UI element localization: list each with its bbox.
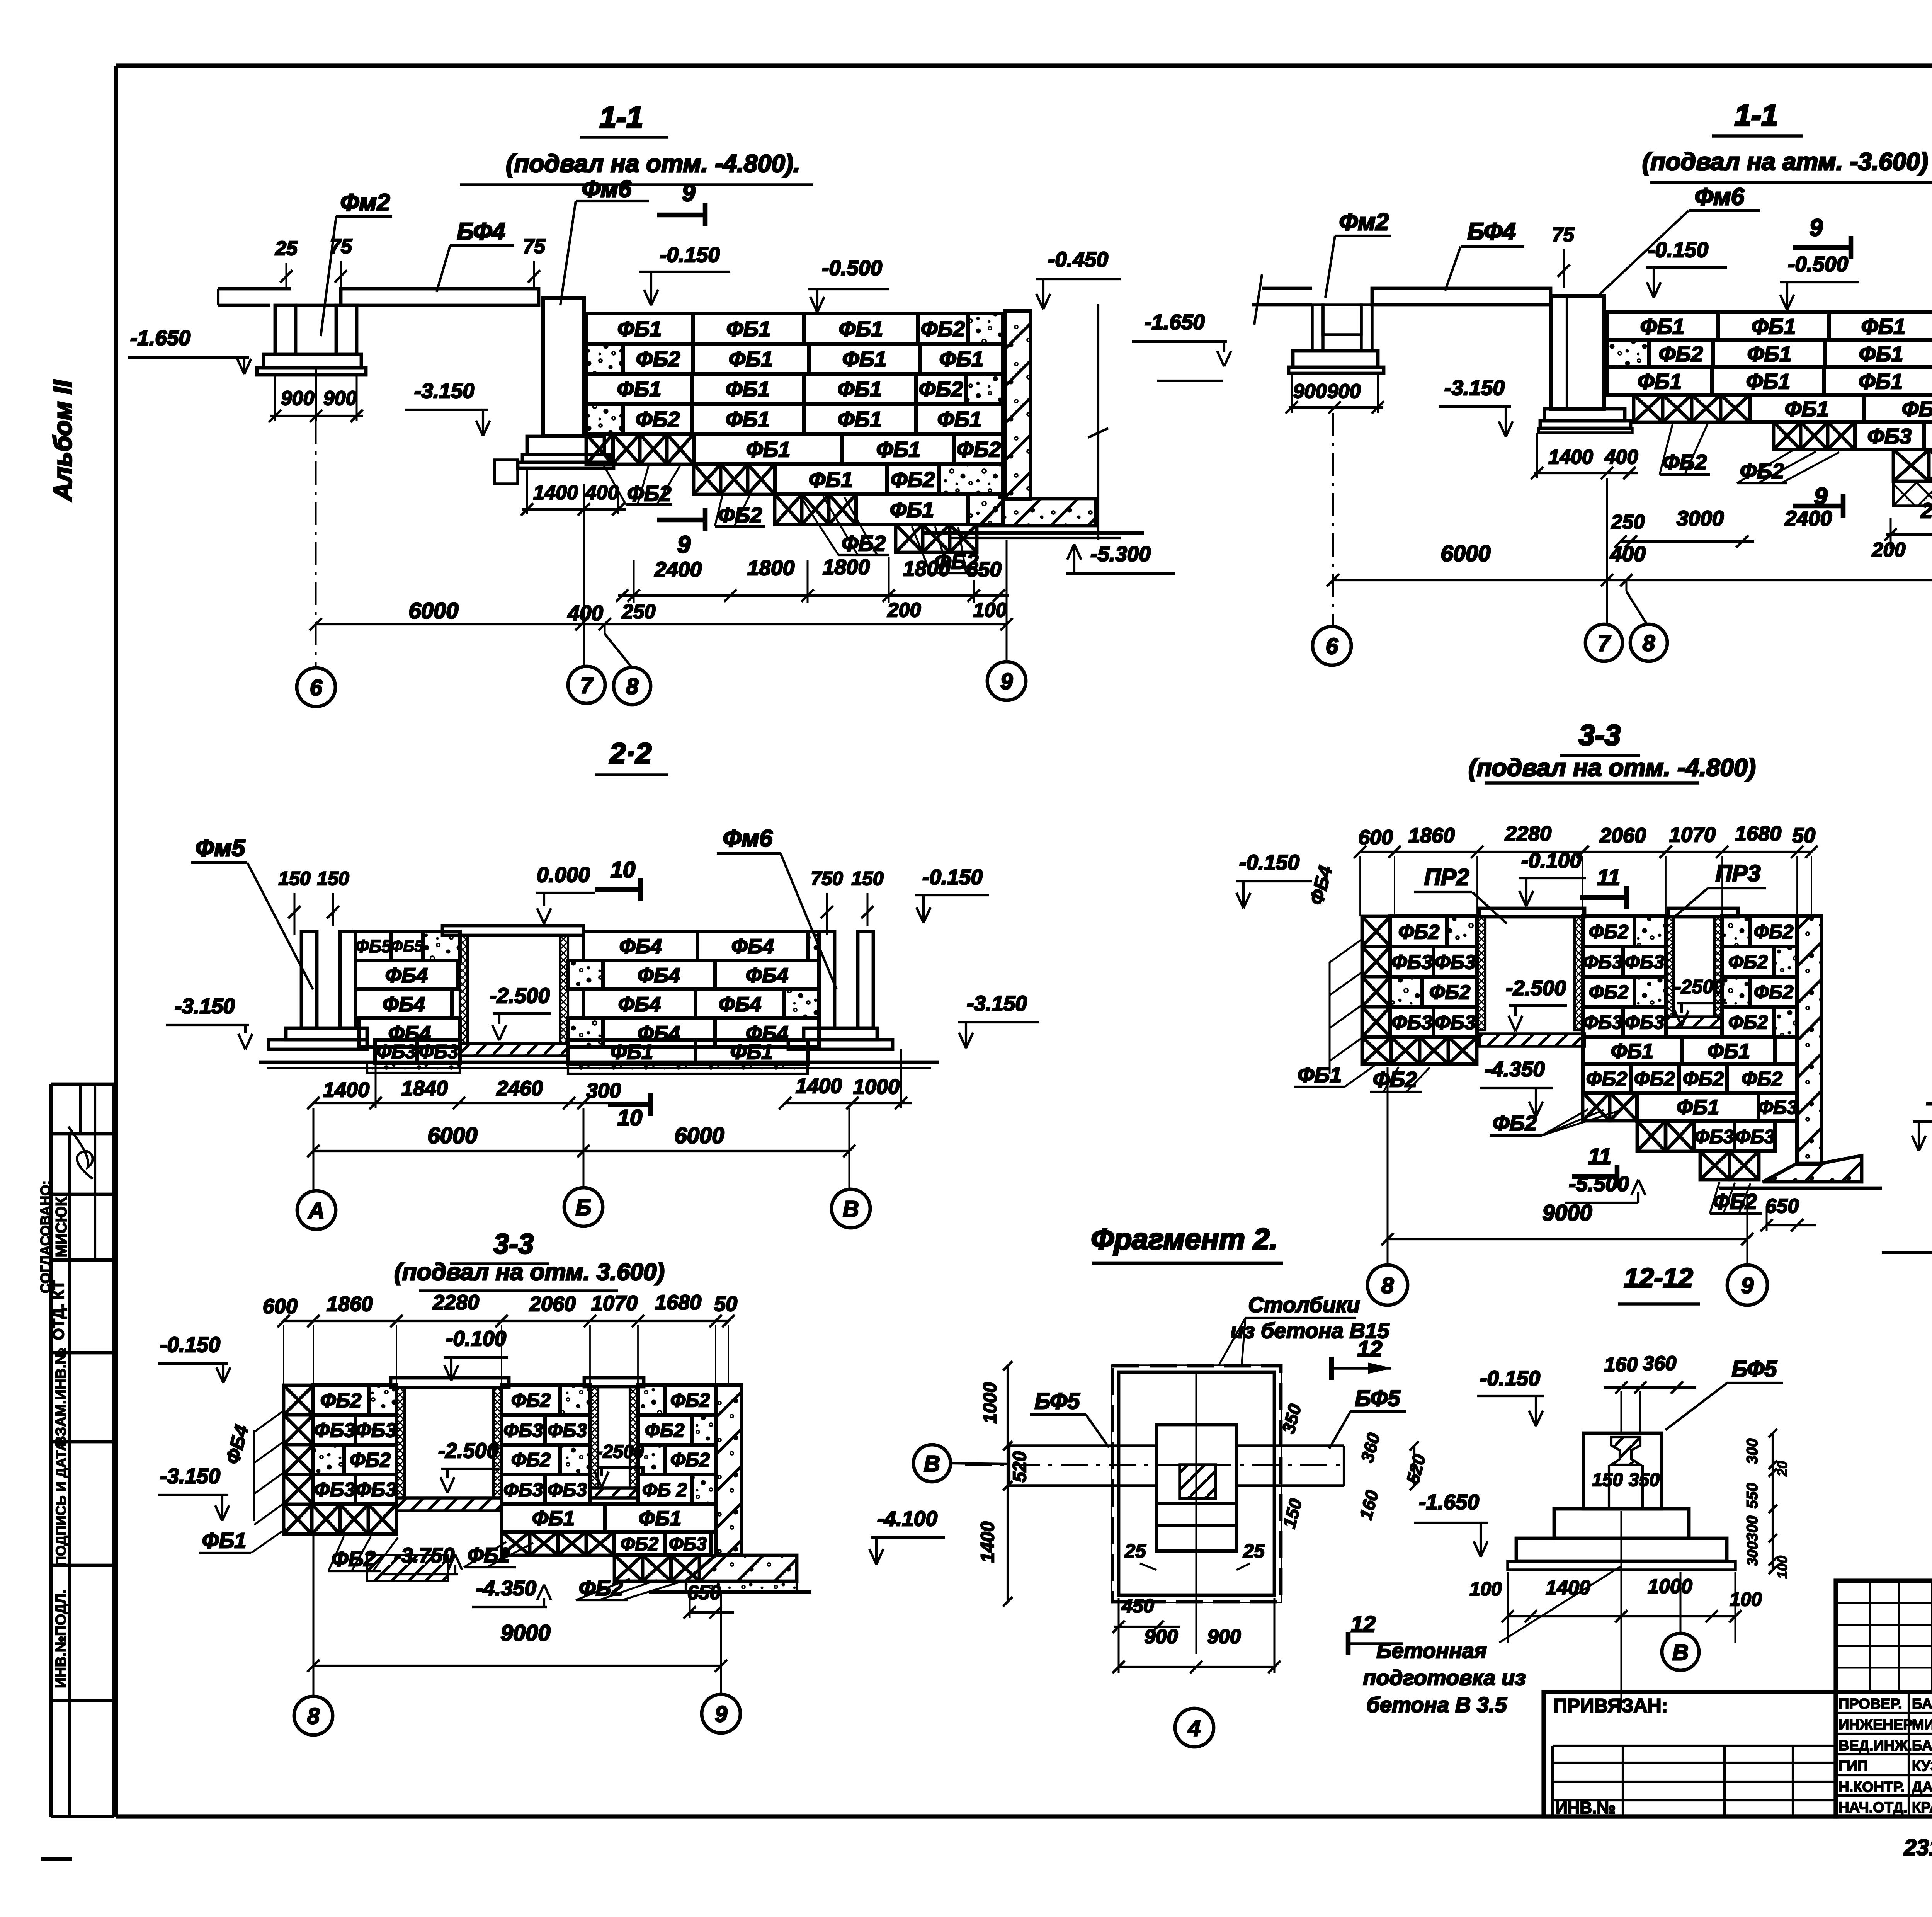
svg-text:ФБ1: ФБ1 [202, 1528, 247, 1553]
svg-text:250: 250 [1611, 511, 1645, 533]
svg-text:12: 12 [1351, 1612, 1376, 1637]
svg-text:9000: 9000 [1542, 1200, 1592, 1226]
svg-text:ФБ2: ФБ2 [1634, 1068, 1675, 1090]
svg-text:ФБ1: ФБ1 [838, 407, 882, 431]
svg-text:ФБ1: ФБ1 [746, 437, 791, 461]
svg-text:ФБ3: ФБ3 [548, 1479, 587, 1501]
svg-text:-0.500: -0.500 [1788, 252, 1848, 276]
svg-text:1860: 1860 [1408, 824, 1455, 847]
svg-text:7: 7 [580, 673, 594, 698]
svg-text:10: 10 [617, 1105, 643, 1130]
svg-text:ФБ1: ФБ1 [937, 407, 982, 431]
svg-text:1-1: 1-1 [1735, 98, 1778, 132]
svg-text:ФБ4: ФБ4 [618, 993, 661, 1016]
svg-text:9: 9 [677, 531, 691, 558]
svg-text:300: 300 [1745, 1541, 1761, 1566]
svg-text:-2.500: -2.500 [1506, 976, 1566, 1000]
svg-text:ФБ1: ФБ1 [1747, 342, 1792, 366]
svg-text:600: 600 [263, 1295, 298, 1318]
svg-text:-1.650: -1.650 [130, 326, 190, 350]
svg-text:МИСЮК: МИСЮК [53, 1197, 70, 1257]
svg-text:ФБ2: ФБ2 [957, 437, 1001, 461]
svg-text:Альбом II: Альбом II [48, 380, 77, 502]
svg-text:БФ4: БФ4 [1467, 218, 1515, 245]
svg-text:ФБ3: ФБ3 [376, 1041, 416, 1062]
svg-text:ФБ3: ФБ3 [314, 1419, 355, 1442]
svg-text:1070: 1070 [1669, 823, 1716, 846]
svg-text:ФБ2: ФБ2 [1683, 1068, 1724, 1090]
svg-text:ФБ3: ФБ3 [314, 1479, 355, 1501]
svg-text:25: 25 [1243, 1540, 1265, 1562]
svg-text:ФБ2: ФБ2 [670, 1389, 710, 1411]
svg-text:ФБ1: ФБ1 [876, 437, 921, 461]
svg-text:2280: 2280 [432, 1291, 479, 1314]
svg-text:-2.500: -2.500 [490, 984, 550, 1008]
svg-text:ФБ3: ФБ3 [669, 1534, 707, 1554]
svg-text:2400: 2400 [1784, 506, 1832, 530]
svg-text:КРАСАВИН: КРАСАВИН [1912, 1800, 1932, 1816]
svg-text:ФБ2: ФБ2 [1493, 1111, 1537, 1135]
svg-text:ПРИВЯЗАН:: ПРИВЯЗАН: [1553, 1695, 1668, 1716]
svg-text:0.000: 0.000 [537, 863, 590, 887]
svg-text:200: 200 [887, 599, 921, 621]
svg-text:ФБ1: ФБ1 [1708, 1040, 1750, 1063]
svg-text:ФБ2: ФБ2 [891, 467, 935, 492]
svg-text:ДАНИЛЕВСКИЙ: ДАНИЛЕВСКИЙ [1912, 1778, 1932, 1795]
svg-text:ФБ3: ФБ3 [503, 1479, 543, 1501]
svg-text:ФБ1: ФБ1 [617, 377, 662, 401]
svg-text:Фм2: Фм2 [1339, 209, 1389, 235]
svg-text:9: 9 [1814, 483, 1828, 510]
svg-text:-3.150: -3.150 [1444, 376, 1505, 400]
svg-text:ФБ3: ФБ3 [1391, 951, 1432, 974]
svg-text:9: 9 [682, 180, 696, 206]
svg-text:1840: 1840 [401, 1077, 448, 1100]
svg-text:ФБ2: ФБ2 [921, 317, 965, 341]
svg-text:ФБ2: ФБ2 [645, 1420, 684, 1441]
svg-text:300: 300 [586, 1079, 621, 1102]
svg-text:-0.150: -0.150 [1648, 238, 1708, 262]
svg-text:ФБ1: ФБ1 [1785, 397, 1829, 421]
svg-text:1680: 1680 [655, 1291, 701, 1314]
svg-text:ФБ4: ФБ4 [719, 993, 761, 1016]
svg-text:-4.350: -4.350 [1485, 1057, 1545, 1081]
svg-text:-2500: -2500 [1675, 976, 1724, 998]
svg-text:7: 7 [1598, 631, 1611, 656]
svg-text:ФБ1: ФБ1 [729, 347, 773, 371]
svg-text:1400: 1400 [533, 482, 578, 504]
svg-text:6000: 6000 [427, 1123, 477, 1148]
svg-text:2460: 2460 [496, 1077, 543, 1100]
svg-text:160: 160 [1604, 1353, 1638, 1376]
svg-text:ФБ1: ФБ1 [726, 377, 770, 401]
svg-text:350: 350 [1629, 1470, 1660, 1490]
svg-text:200: 200 [1872, 539, 1906, 561]
svg-text:ФБ2: ФБ2 [1728, 951, 1768, 973]
svg-text:Н.КОНТР.: Н.КОНТР. [1838, 1779, 1905, 1795]
svg-text:11: 11 [1588, 1144, 1611, 1169]
svg-text:ФБ1: ФБ1 [532, 1507, 575, 1530]
svg-text:6: 6 [1326, 634, 1338, 659]
svg-text:ФБ2: ФБ2 [511, 1449, 551, 1471]
svg-text:ФБ3: ФБ3 [1583, 1011, 1622, 1033]
svg-text:1-1: 1-1 [600, 100, 643, 134]
svg-text:ФБ3: ФБ3 [1583, 951, 1622, 973]
svg-text:ФБ1: ФБ1 [1902, 397, 1932, 421]
svg-text:-0.500: -0.500 [822, 256, 882, 280]
svg-text:9000: 9000 [500, 1621, 550, 1646]
svg-text:50: 50 [1792, 824, 1815, 847]
svg-text:ФБ2: ФБ2 [1659, 342, 1703, 366]
svg-text:ФБ2: ФБ2 [1754, 921, 1793, 943]
svg-text:23142-01: 23142-01 [1903, 1835, 1932, 1860]
svg-text:ФБ1: ФБ1 [839, 317, 883, 341]
svg-text:1680: 1680 [1735, 822, 1781, 845]
svg-text:ФБ2: ФБ2 [1740, 459, 1784, 483]
svg-text:Фм2: Фм2 [340, 189, 390, 216]
svg-text:ФБ2: ФБ2 [468, 1544, 510, 1567]
svg-text:ФБ2: ФБ2 [1663, 450, 1707, 474]
svg-text:ФБ2: ФБ2 [1728, 1011, 1768, 1033]
svg-text:ФБ1: ФБ1 [890, 497, 934, 522]
svg-text:1800: 1800 [747, 556, 795, 580]
svg-text:ГИП: ГИП [1838, 1758, 1868, 1774]
svg-text:100: 100 [1469, 1578, 1502, 1600]
svg-text:-0.150: -0.150 [1480, 1366, 1540, 1390]
svg-text:2060: 2060 [529, 1292, 576, 1316]
svg-text:650: 650 [966, 557, 1002, 581]
svg-text:ФБ1: ФБ1 [726, 317, 771, 341]
svg-text:1860: 1860 [327, 1292, 373, 1316]
svg-text:3-3: 3-3 [1579, 719, 1621, 751]
svg-text:Фм5: Фм5 [196, 835, 246, 861]
svg-text:ФБ2: ФБ2 [636, 407, 680, 431]
svg-text:1800: 1800 [823, 555, 870, 579]
svg-text:БАБИКОВА: БАБИКОВА [1912, 1738, 1932, 1754]
svg-text:-0.150: -0.150 [660, 243, 720, 267]
svg-text:ФБ3: ФБ3 [1735, 1126, 1775, 1147]
svg-text:-2.500: -2.500 [438, 1439, 498, 1462]
svg-text:ФБ1: ФБ1 [1611, 1040, 1653, 1063]
svg-text:150: 150 [317, 868, 349, 889]
svg-text:(подвал на отм. 3.600): (подвал на отм. 3.600) [394, 1259, 665, 1285]
svg-text:-3.150: -3.150 [414, 379, 474, 403]
svg-text:ФБ2: ФБ2 [511, 1389, 551, 1411]
svg-text:ФБ1: ФБ1 [639, 1507, 681, 1530]
svg-text:СОГЛАСОВАНО:: СОГЛАСОВАНО: [37, 1180, 53, 1293]
svg-text:150: 150 [278, 868, 311, 889]
svg-text:6000: 6000 [1440, 541, 1490, 566]
svg-text:ФБ3: ФБ3 [1625, 1011, 1664, 1033]
svg-text:2060: 2060 [1599, 824, 1646, 847]
svg-text:ПР3: ПР3 [1716, 860, 1761, 886]
svg-text:650: 650 [1765, 1195, 1799, 1217]
svg-text:ФБ4: ФБ4 [619, 935, 662, 958]
svg-text:6: 6 [310, 675, 323, 700]
svg-text:ФБ2: ФБ2 [1589, 921, 1628, 943]
svg-text:ИНВ.№ПОДЛ.: ИНВ.№ПОДЛ. [53, 1589, 69, 1688]
svg-text:9: 9 [1000, 669, 1013, 694]
svg-text:-0.100: -0.100 [446, 1326, 506, 1350]
svg-text:-0.150: -0.150 [1239, 850, 1299, 874]
svg-text:6000: 6000 [408, 598, 458, 623]
svg-text:ФБ1: ФБ1 [611, 1040, 653, 1064]
svg-text:9: 9 [1810, 215, 1823, 241]
svg-text:4: 4 [1188, 1716, 1201, 1741]
svg-text:ФБ2: ФБ2 [919, 377, 963, 401]
svg-text:ФБ4: ФБ4 [385, 964, 428, 987]
svg-text:ФБ5: ФБ5 [391, 937, 423, 955]
svg-text:-0.450: -0.450 [1048, 247, 1108, 271]
svg-text:ОТД. КТ: ОТД. КТ [50, 1280, 67, 1340]
svg-text:ФБ1: ФБ1 [617, 317, 662, 341]
svg-text:300: 300 [1744, 1516, 1761, 1542]
svg-text:(подвал на отм. -4.800).: (подвал на отм. -4.800). [506, 150, 800, 177]
svg-text:БФ5: БФ5 [1355, 1386, 1400, 1411]
svg-text:-0.150: -0.150 [160, 1333, 220, 1357]
svg-text:ФБ2: ФБ2 [842, 531, 886, 555]
svg-text:ФБ3: ФБ3 [1391, 1011, 1432, 1034]
svg-text:1400: 1400 [1548, 446, 1593, 468]
svg-text:75: 75 [523, 235, 546, 258]
svg-text:ФБ1: ФБ1 [1640, 314, 1685, 339]
svg-text:1400: 1400 [796, 1074, 842, 1098]
svg-text:25: 25 [275, 237, 298, 260]
svg-text:ПОДПИСЬ И ДАТА: ПОДПИСЬ И ДАТА [53, 1441, 69, 1566]
svg-text:ФБ1: ФБ1 [939, 347, 984, 371]
svg-text:ФБ2: ФБ2 [627, 481, 672, 506]
svg-text:ФБ2: ФБ2 [350, 1449, 391, 1471]
svg-text:1400: 1400 [978, 1521, 998, 1563]
svg-text:ФБ5: ФБ5 [355, 936, 392, 956]
svg-text:100: 100 [1774, 1556, 1790, 1579]
svg-text:900: 900 [1327, 380, 1361, 403]
svg-text:550: 550 [1744, 1483, 1761, 1509]
svg-text:ФБ1: ФБ1 [730, 1040, 773, 1064]
svg-text:ФБ3: ФБ3 [1435, 951, 1476, 974]
svg-text:360: 360 [1643, 1352, 1677, 1375]
svg-text:ФБ 2: ФБ 2 [642, 1479, 687, 1501]
svg-text:ФБ3: ФБ3 [1625, 951, 1664, 973]
svg-text:-0.150: -0.150 [922, 865, 983, 889]
svg-text:750: 750 [811, 868, 843, 889]
svg-text:БАБИКОВА: БАБИКОВА [1912, 1696, 1932, 1712]
svg-text:ФБ2: ФБ2 [621, 1534, 658, 1554]
svg-text:400: 400 [1604, 446, 1638, 468]
svg-text:ФБ3: ФБ3 [419, 1041, 458, 1062]
svg-text:8: 8 [1381, 1273, 1394, 1298]
svg-text:900: 900 [281, 387, 315, 410]
svg-text:подготовка из: подготовка из [1363, 1665, 1526, 1690]
svg-text:-3.150: -3.150 [967, 991, 1027, 1015]
svg-text:150: 150 [851, 868, 884, 889]
svg-text:11: 11 [1597, 865, 1620, 890]
svg-text:3000: 3000 [1677, 506, 1724, 530]
svg-text:1000: 1000 [853, 1075, 900, 1098]
svg-text:600: 600 [1358, 826, 1393, 849]
svg-text:ФБ2: ФБ2 [1742, 1068, 1782, 1090]
svg-text:9: 9 [715, 1702, 727, 1727]
svg-text:ФБ3: ФБ3 [355, 1419, 396, 1442]
svg-text:8: 8 [307, 1704, 320, 1729]
svg-text:3-3: 3-3 [493, 1229, 534, 1260]
svg-text:ФБ3: ФБ3 [1694, 1126, 1734, 1147]
svg-text:Столбики: Столбики [1248, 1292, 1360, 1317]
svg-text:250: 250 [622, 601, 656, 623]
svg-text:ФБ3: ФБ3 [355, 1479, 396, 1501]
svg-text:50: 50 [714, 1292, 737, 1316]
svg-text:ФБ1: ФБ1 [838, 377, 882, 401]
svg-text:ФБ4: ФБ4 [638, 964, 680, 987]
svg-text:900: 900 [1145, 1626, 1178, 1648]
svg-text:2·2: 2·2 [609, 737, 651, 770]
svg-text:ФБ1: ФБ1 [1859, 342, 1903, 366]
svg-text:ВЗАМ.ИНВ.№: ВЗАМ.ИНВ.№ [53, 1348, 69, 1447]
svg-text:Фрагмент 2.: Фрагмент 2. [1091, 1223, 1277, 1256]
svg-text:25: 25 [1124, 1540, 1146, 1562]
svg-text:75: 75 [1552, 224, 1575, 246]
svg-text:Бетонная: Бетонная [1376, 1638, 1487, 1663]
svg-text:10: 10 [611, 857, 636, 882]
svg-text:900: 900 [323, 387, 357, 410]
svg-text:ФБ3: ФБ3 [1758, 1096, 1798, 1118]
svg-text:ФБ4: ФБ4 [746, 964, 788, 987]
svg-text:ФБ2: ФБ2 [1589, 981, 1628, 1003]
svg-text:ФБ3: ФБ3 [503, 1420, 543, 1441]
svg-text:1400: 1400 [1546, 1577, 1590, 1599]
svg-text:ФБ2: ФБ2 [1398, 921, 1439, 943]
svg-text:-5.300: -5.300 [1926, 1090, 1932, 1114]
svg-text:ФБ1: ФБ1 [1746, 369, 1791, 393]
svg-text:ФБ1: ФБ1 [1298, 1062, 1342, 1087]
svg-text:ФБ4: ФБ4 [383, 993, 425, 1016]
svg-text:20: 20 [1774, 1461, 1790, 1477]
svg-text:-5.500: -5.500 [1569, 1172, 1629, 1196]
svg-text:БФ5: БФ5 [1034, 1389, 1080, 1414]
svg-text:-5.300: -5.300 [1090, 542, 1151, 566]
svg-text:520: 520 [1010, 1451, 1030, 1482]
svg-text:450: 450 [1121, 1595, 1154, 1617]
svg-text:-1.650: -1.650 [1145, 310, 1205, 334]
svg-text:12: 12 [1357, 1336, 1383, 1362]
svg-text:ФБ3: ФБ3 [548, 1420, 587, 1441]
svg-text:-4.100: -4.100 [877, 1507, 937, 1531]
svg-text:НАЧ.ОТД.: НАЧ.ОТД. [1838, 1800, 1908, 1816]
svg-text:300: 300 [1744, 1439, 1761, 1464]
svg-text:ФБ2: ФБ2 [1713, 1189, 1757, 1214]
svg-text:ФБ2: ФБ2 [1586, 1068, 1627, 1090]
svg-text:ФБ1: ФБ1 [1861, 314, 1906, 339]
svg-text:ФБ3: ФБ3 [1867, 424, 1912, 448]
svg-text:ФБ2: ФБ2 [636, 347, 680, 371]
svg-text:75: 75 [330, 235, 352, 258]
svg-text:Б: Б [575, 1195, 591, 1220]
svg-text:ФБ2: ФБ2 [320, 1389, 361, 1412]
svg-text:ИНЖЕНЕР: ИНЖЕНЕР [1838, 1717, 1913, 1733]
svg-text:1000: 1000 [980, 1382, 1000, 1423]
svg-text:150: 150 [1592, 1470, 1623, 1490]
svg-text:-3.150: -3.150 [160, 1464, 220, 1488]
svg-text:А: А [308, 1198, 325, 1223]
svg-text:(подвал на атм. -3.600): (подвал на атм. -3.600) [1642, 148, 1928, 175]
svg-text:ПР2: ПР2 [1424, 864, 1469, 890]
svg-text:бетона В 3.5: бетона В 3.5 [1366, 1692, 1507, 1717]
svg-text:ФБ1: ФБ1 [809, 467, 853, 492]
svg-text:МИРОШНИЧЕН: МИРОШНИЧЕН [1912, 1717, 1932, 1733]
svg-text:900: 900 [1207, 1626, 1241, 1648]
svg-text:ФБ2: ФБ2 [1429, 981, 1470, 1004]
svg-text:ФБ1: ФБ1 [726, 407, 770, 431]
svg-text:ФБ2: ФБ2 [1754, 981, 1793, 1003]
svg-text:2400: 2400 [654, 557, 702, 581]
svg-text:ФБ1: ФБ1 [1752, 314, 1796, 339]
svg-text:ИНВ.№: ИНВ.№ [1555, 1798, 1616, 1817]
svg-text:ФБ1: ФБ1 [1677, 1096, 1719, 1119]
svg-text:Фм6: Фм6 [1695, 184, 1745, 210]
svg-text:В: В [924, 1451, 940, 1476]
svg-text:8: 8 [626, 674, 639, 699]
svg-text:1070: 1070 [591, 1292, 638, 1315]
svg-text:9: 9 [1741, 1273, 1753, 1298]
svg-text:ФБ3: ФБ3 [1435, 1011, 1476, 1034]
svg-text:ФБ1: ФБ1 [842, 347, 887, 371]
svg-text:-0.100: -0.100 [1521, 848, 1582, 872]
svg-text:1800: 1800 [903, 557, 951, 581]
svg-text:-4.350: -4.350 [476, 1576, 536, 1600]
svg-text:ПРОВЕР.: ПРОВЕР. [1838, 1696, 1902, 1712]
svg-text:400: 400 [585, 482, 619, 504]
svg-text:2280: 2280 [1505, 822, 1551, 845]
svg-text:Фм6: Фм6 [582, 176, 632, 203]
svg-text:ФБ2: ФБ2 [670, 1449, 710, 1471]
svg-text:ВЕД.ИНЖ.: ВЕД.ИНЖ. [1838, 1738, 1912, 1754]
svg-text:2400: 2400 [1920, 499, 1932, 523]
svg-text:В: В [1672, 1640, 1689, 1665]
svg-text:В: В [843, 1197, 859, 1222]
svg-text:ФБ1: ФБ1 [1859, 369, 1903, 393]
svg-text:1400: 1400 [323, 1078, 369, 1102]
svg-text:БФ4: БФ4 [457, 218, 505, 245]
svg-text:900: 900 [1293, 380, 1327, 403]
svg-text:1000: 1000 [1648, 1575, 1692, 1598]
svg-text:КУЗНЕЦОВ: КУЗНЕЦОВ [1912, 1758, 1932, 1774]
svg-text:БФ5: БФ5 [1731, 1357, 1777, 1382]
svg-text:(подвал на отм. -4.800): (подвал на отм. -4.800) [1468, 754, 1756, 781]
svg-text:100: 100 [973, 599, 1007, 621]
svg-text:6000: 6000 [674, 1123, 724, 1148]
svg-text:-3.150: -3.150 [175, 994, 235, 1018]
svg-text:ФБ1: ФБ1 [1638, 369, 1682, 393]
svg-text:400: 400 [1610, 542, 1646, 566]
svg-text:12-12: 12-12 [1624, 1263, 1693, 1293]
svg-text:Фм6: Фм6 [723, 825, 773, 852]
svg-text:ФБ4: ФБ4 [731, 935, 774, 958]
svg-text:-1.650: -1.650 [1419, 1490, 1479, 1514]
svg-text:8: 8 [1643, 631, 1655, 656]
